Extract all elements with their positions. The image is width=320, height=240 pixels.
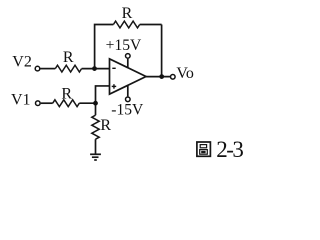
svg-text:R: R: [63, 49, 74, 66]
svg-text:+15V: +15V: [106, 37, 142, 54]
svg-text:Vo: Vo: [176, 65, 194, 82]
svg-text:-15V: -15V: [111, 101, 144, 118]
svg-text:2-3: 2-3: [216, 137, 243, 162]
svg-text:R: R: [100, 117, 111, 134]
svg-text:R: R: [61, 86, 72, 103]
svg-text:V2: V2: [12, 53, 32, 70]
svg-text:V1: V1: [11, 92, 31, 109]
svg-text:R: R: [122, 5, 133, 22]
